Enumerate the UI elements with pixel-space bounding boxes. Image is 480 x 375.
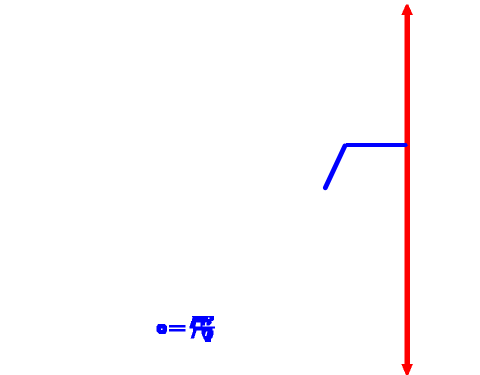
numerator: F + diagonal glyph bbox=[192, 316, 214, 321]
equals sign bbox=[169, 325, 185, 327]
blue diagonal segment bbox=[325, 146, 345, 188]
red double-headed vertical arrow (axis) bbox=[401, 5, 412, 375]
fraction bar bbox=[189, 326, 215, 328]
glyph a bbox=[156, 324, 167, 334]
formula: a = F?/F? (blue, pixel-traced) bbox=[156, 316, 214, 342]
denominator: F-with-g-like blob bbox=[193, 328, 213, 330]
blue horizontal segment (meets red arrow) bbox=[346, 143, 408, 147]
